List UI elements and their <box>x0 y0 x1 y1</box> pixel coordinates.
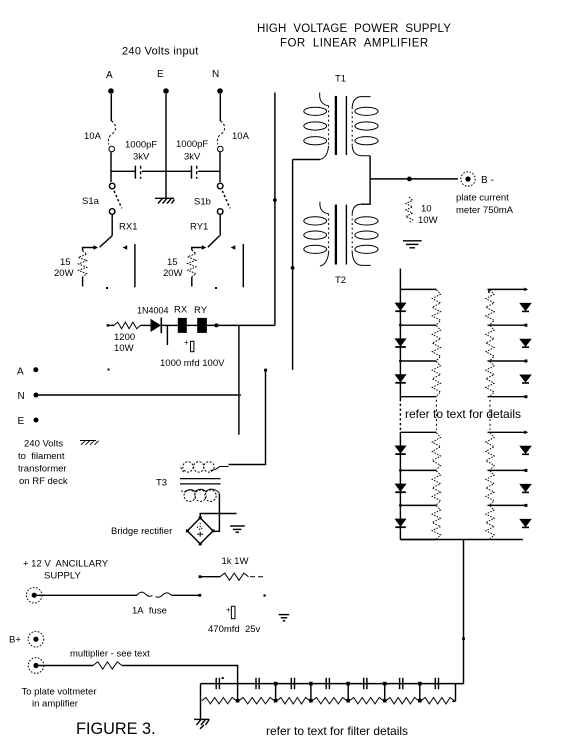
wire A terminal to fuse <box>110 94 112 121</box>
stack resistor right R6 <box>486 506 494 539</box>
fuse F1 10A <box>108 121 115 152</box>
stack rung right 2 <box>488 324 527 326</box>
svg-text:RX1: RX1 <box>119 222 137 233</box>
svg-text:E: E <box>18 416 25 427</box>
wire resistor left stub <box>82 277 84 287</box>
stack right resistor column top corner <box>488 289 490 293</box>
filter resistor R7 <box>421 698 454 704</box>
stack tap down <box>463 540 465 684</box>
svg-text:+: + <box>226 606 231 615</box>
svg-text:10W: 10W <box>114 343 134 354</box>
stack resistor left R1 <box>432 290 440 325</box>
stack resistor left R3 <box>432 362 440 397</box>
filter resistor R1 <box>202 698 237 704</box>
stack rung left 7 <box>400 504 436 506</box>
resistor 15 20W right <box>188 250 196 277</box>
wire vertical N cross <box>238 325 240 434</box>
resistor 1200 10W <box>114 322 141 329</box>
stack rung end dot <box>524 324 527 327</box>
wire S1b to contact <box>208 214 220 247</box>
stack rung right 6 <box>488 469 527 471</box>
stack rung end dot <box>524 504 527 507</box>
stack rung right 5 <box>488 431 527 433</box>
stack resistor left R6 <box>432 506 440 539</box>
svg-text:S1b: S1b <box>194 197 211 208</box>
wire 1k right dashed <box>250 576 266 578</box>
transformer T1 secondary winding <box>352 97 378 156</box>
svg-text:T3: T3 <box>156 478 167 489</box>
svg-text:SUPPLY: SUPPLY <box>44 571 81 582</box>
stack left dashed <box>399 399 401 421</box>
stack diode right D5 <box>519 484 532 493</box>
stack resistor right R1 <box>486 290 494 325</box>
switch S1a <box>109 183 121 214</box>
svg-text:1200: 1200 <box>114 332 135 343</box>
filter resistor R2 <box>239 698 275 704</box>
dot A row <box>108 369 110 371</box>
svg-text:transformer: transformer <box>18 464 67 475</box>
relay contact RY1 arrow left <box>231 245 236 250</box>
wire RX1 arrow to resistor <box>83 248 94 251</box>
stack resistor right R3 <box>486 362 494 397</box>
filter capacitor C6 <box>400 678 403 689</box>
ground E hatched <box>155 198 175 203</box>
ground right of bridge <box>230 526 245 532</box>
svg-text:To plate voltmeter: To plate voltmeter <box>22 687 97 698</box>
svg-text:20W: 20W <box>163 268 183 279</box>
svg-text:10A: 10A <box>84 131 102 142</box>
junction dot stack <box>399 504 402 507</box>
svg-text:3kV: 3kV <box>184 152 201 163</box>
filter resistor R6 <box>386 698 419 704</box>
wire multiplier right <box>122 666 238 701</box>
filter tie 3 <box>346 682 350 703</box>
stack rung left 6 <box>400 469 436 471</box>
transformer T2 secondary winding <box>352 204 378 265</box>
diode D1 1N4004 <box>151 318 162 334</box>
wire RX1 NC pole <box>134 244 136 287</box>
capacitor C2 1000pF <box>192 166 197 179</box>
junction dot stack <box>399 469 402 472</box>
svg-text:240 Volts input: 240 Volts input <box>122 46 199 58</box>
filter last tie <box>452 684 455 702</box>
resistor 15 20W left <box>78 251 86 277</box>
resistor 1k 1W <box>220 573 249 580</box>
svg-text:10W: 10W <box>418 215 438 226</box>
filter tie 5 <box>418 682 422 703</box>
transformer T1 core <box>336 96 347 155</box>
node N2 terminal <box>34 393 39 398</box>
wire RY1 arrow to resistor <box>192 248 202 251</box>
wire 12V to fuse <box>37 594 137 596</box>
filter ground hatched <box>194 719 210 728</box>
svg-text:RY1: RY1 <box>190 222 208 233</box>
wire RX to RY coil <box>187 324 197 326</box>
endpoint dot 1k wire <box>199 575 202 578</box>
relay coil RY <box>197 318 207 333</box>
stack rung right 1 <box>488 288 527 290</box>
relay contact RY1 arrow right <box>202 245 207 250</box>
stack rung left 3 <box>400 360 436 362</box>
svg-text:in amplifier: in amplifier <box>32 699 78 710</box>
terminal multiplier <box>28 658 44 674</box>
stack bottom bus <box>400 539 523 541</box>
stack diode left D5 <box>395 484 407 493</box>
svg-text:+ 12 V ANCILLARY: + 12 V ANCILLARY <box>23 559 109 570</box>
stack diode right D4 <box>519 446 532 455</box>
wire E line <box>165 94 167 198</box>
svg-text:15: 15 <box>60 257 71 268</box>
stack resistor left R4 <box>432 433 440 470</box>
stack resistor right R5 <box>486 471 494 505</box>
node E terminal <box>163 88 169 94</box>
junction dot on vertical <box>273 198 277 202</box>
stack rung left 8 <box>400 539 436 541</box>
junction dot T2 primary <box>291 266 295 270</box>
terminal B- <box>461 172 475 186</box>
stack resistor column dashed gap <box>435 400 437 430</box>
wire E to C2 <box>166 170 192 172</box>
transformer T2 core <box>336 205 347 265</box>
filter tie 2 <box>309 682 313 703</box>
filter tie 4 <box>383 682 387 703</box>
wire T1 primary down <box>292 160 294 370</box>
stack resistor right R2 <box>486 326 494 361</box>
filter resistor R5 <box>349 698 383 704</box>
svg-text:on RF deck: on RF deck <box>19 476 68 487</box>
stack resistor left R5 <box>432 471 440 505</box>
svg-text:3kV: 3kV <box>133 152 150 163</box>
svg-text:FOR LINEAR AMPLIFIER: FOR LINEAR AMPLIFIER <box>280 37 429 49</box>
svg-text:+: + <box>184 338 189 347</box>
wire N2 line <box>39 394 241 396</box>
filter cap1 plus dot <box>222 677 224 679</box>
multiplier tie bottom dot <box>236 699 240 703</box>
wire bridge top <box>200 514 236 518</box>
endpoint dot fuse wire <box>198 594 201 597</box>
wire fuse to end <box>172 594 200 596</box>
stack diode right D6 <box>519 519 532 528</box>
wire fuse to cap row N <box>219 152 221 182</box>
stack rung right 3 <box>488 360 527 362</box>
svg-text:E: E <box>157 69 164 80</box>
svg-text:meter 750mA: meter 750mA <box>456 205 514 216</box>
svg-text:multiplier - see text: multiplier - see text <box>70 649 150 660</box>
stack rung left 5 <box>400 431 436 433</box>
filter resistor R4 <box>312 698 347 704</box>
svg-text:A: A <box>17 367 24 378</box>
svg-text:refer to text for details: refer to text for details <box>405 407 521 421</box>
wire RY to corner <box>207 324 275 326</box>
node A terminal <box>108 88 114 94</box>
relay coil RX <box>178 318 187 333</box>
svg-text:HIGH VOLTAGE POWER SUPPLY: HIGH VOLTAGE POWER SUPPLY <box>257 23 451 35</box>
bridge rectifier <box>187 518 213 544</box>
relay contact RX1 arrow right <box>94 245 99 250</box>
filter capacitor C4 <box>326 678 329 689</box>
wire T3 secondary to bridge <box>214 494 220 531</box>
dot left <box>106 287 108 289</box>
wire multiplier left <box>39 665 93 667</box>
hash mark <box>80 440 99 445</box>
fuse 1A <box>137 592 172 597</box>
dot after fuse wire <box>264 594 266 596</box>
wire resistor right stub <box>191 277 193 287</box>
stack rung arrow tip <box>524 288 528 292</box>
svg-text:20W: 20W <box>54 268 74 279</box>
stack rung end dot <box>524 360 527 363</box>
filter capacitor C7 <box>435 678 438 689</box>
terminal 12V supply <box>26 587 42 603</box>
transformer T3 core <box>180 479 221 484</box>
svg-text:10: 10 <box>421 204 432 215</box>
svg-text:N: N <box>212 69 219 80</box>
relay contact RX1 arrow left <box>123 245 128 250</box>
capacitor 1000mfd lead <box>166 325 168 345</box>
wire S1a to contact <box>100 214 113 247</box>
junction dot <box>214 323 218 327</box>
wire 1k left <box>201 576 220 578</box>
stack diode left D2 <box>395 338 407 347</box>
capacitor C1 1000pF <box>135 166 140 179</box>
svg-text:1000pF: 1000pF <box>125 140 157 151</box>
filter capacitor C2 <box>256 678 259 689</box>
svg-text:15: 15 <box>167 257 178 268</box>
stack diode left D1 <box>395 303 407 312</box>
svg-text:to filament: to filament <box>18 451 65 462</box>
stack diode right D1 <box>519 303 532 312</box>
wire C2 to N <box>198 170 220 172</box>
stack diode right D2 <box>519 339 532 348</box>
stack resistor left R2 <box>432 326 440 361</box>
wire to B- terminal <box>370 178 458 180</box>
svg-text:Bridge rectifier: Bridge rectifier <box>111 526 172 537</box>
fuse F2 10A <box>217 121 224 152</box>
svg-text:FIGURE 3.: FIGURE 3. <box>76 720 156 738</box>
stack diode left D3 <box>395 374 407 383</box>
wire fuse to cap row A <box>110 152 112 182</box>
wire RY1 NC pole <box>242 244 244 287</box>
junction dot stack <box>399 360 402 363</box>
stack rung left 1 <box>400 288 436 290</box>
filter capacitor C5 <box>364 678 367 689</box>
terminal B+ <box>28 631 44 647</box>
stack diode left D6 <box>395 519 407 528</box>
transformer T1 primary winding <box>304 93 329 160</box>
junction dot B- wire <box>407 177 412 182</box>
stack rung end dot <box>524 469 527 472</box>
stack rung right 7 <box>488 504 527 506</box>
wire C1 to E <box>142 170 166 172</box>
wire diode to RX coil <box>162 324 178 326</box>
node E2 terminal <box>34 418 39 423</box>
resistor 10 10W <box>406 197 413 223</box>
transformer T3 secondary winding <box>182 490 217 501</box>
svg-text:T1: T1 <box>335 74 346 85</box>
ground 470mfd <box>279 615 290 621</box>
wire start dot <box>107 324 109 326</box>
svg-text:B -: B - <box>481 175 494 186</box>
switch S1b <box>217 183 230 214</box>
stack rung left 4 <box>400 396 436 398</box>
svg-text:B+: B+ <box>9 635 21 646</box>
wire resistor to diode <box>141 324 151 326</box>
filter capacitor C1 <box>216 678 219 689</box>
stack rung arrow tip <box>524 430 528 434</box>
svg-text:1000pF: 1000pF <box>176 139 208 150</box>
transformer T2 primary winding <box>304 202 329 266</box>
junction dot stack <box>399 324 402 327</box>
filter top rail <box>201 683 465 685</box>
filter capacitor C3 <box>291 678 294 689</box>
stack tap dot <box>462 637 465 640</box>
wire to resistor 1200 <box>108 324 114 326</box>
svg-text:470mfd 25v: 470mfd 25v <box>208 624 261 635</box>
filter tie 1 <box>274 682 278 703</box>
stack resistor right R4 <box>486 433 494 470</box>
wire T1 sec to T2 sec <box>361 156 370 205</box>
resistor multiplier <box>93 662 122 669</box>
stack diode left D4 <box>395 446 407 455</box>
diode stack left vertical <box>399 269 401 540</box>
svg-text:240 Volts: 240 Volts <box>24 439 63 450</box>
svg-text:10A: 10A <box>232 131 250 142</box>
node A2 terminal <box>33 367 38 372</box>
svg-text:1000 mfd 100V: 1000 mfd 100V <box>160 358 225 369</box>
svg-text:RY: RY <box>194 305 208 316</box>
wire A to C1 <box>111 170 135 172</box>
svg-text:A: A <box>106 70 113 81</box>
svg-text:plate current: plate current <box>456 193 509 204</box>
svg-text:N: N <box>18 391 25 402</box>
svg-text:1N4004: 1N4004 <box>137 306 169 316</box>
wire vertical to T1 area <box>274 93 276 326</box>
svg-text:1A fuse: 1A fuse <box>132 606 167 617</box>
capacitor 1000mfd 100V <box>191 341 194 351</box>
transformer T3 primary winding <box>181 462 215 473</box>
svg-text:refer to text for filter detai: refer to text for filter details <box>266 724 408 738</box>
stack right column dashed gap <box>489 400 491 430</box>
wire T1 primary to vertical <box>293 159 320 161</box>
stack rung end dot <box>524 395 527 398</box>
wire T3 feed <box>229 372 266 465</box>
stack diode right D3 <box>519 375 532 384</box>
filter resistor R3 <box>277 698 310 704</box>
ground below resistor <box>403 241 422 248</box>
wire N terminal to fuse <box>219 94 221 121</box>
svg-text:S1a: S1a <box>82 196 100 207</box>
stack rung left 2 <box>400 324 436 326</box>
svg-text:RX: RX <box>174 305 188 316</box>
svg-text:T2: T2 <box>335 275 346 286</box>
T3 feed endpoint dot <box>264 369 267 372</box>
dot right <box>215 287 217 289</box>
node N terminal <box>217 88 223 94</box>
stack rung right 4 <box>488 396 527 398</box>
filter left column <box>200 684 202 719</box>
capacitor 470mfd <box>231 606 235 618</box>
svg-text:1k 1W: 1k 1W <box>222 556 249 567</box>
